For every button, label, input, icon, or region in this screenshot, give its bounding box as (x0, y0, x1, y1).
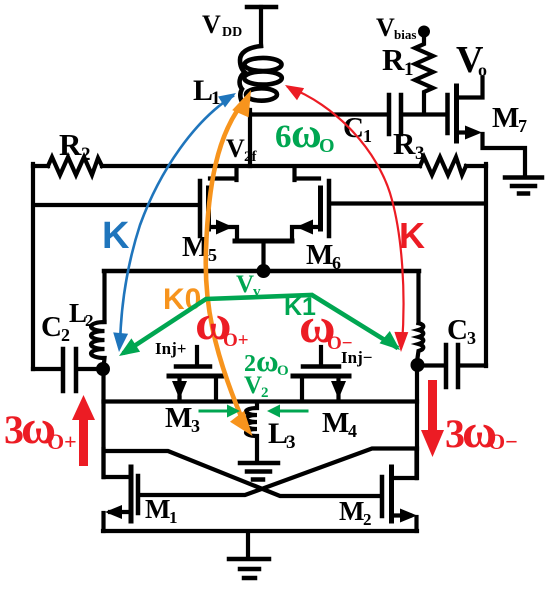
wire right tank vertical down (415, 367, 419, 478)
label M5 (182, 231, 217, 265)
coupling arrow K red (285, 85, 408, 352)
capacitor C2 (33, 349, 96, 391)
wire main rail right segment (466, 164, 486, 168)
output arrow 3wO- red (421, 380, 444, 457)
svg-text:M: M (339, 496, 364, 526)
node left tank (96, 362, 110, 376)
label L2 (69, 298, 94, 330)
wire common source bar M5 M6 (235, 239, 292, 244)
label M7 (492, 102, 527, 136)
label R1 (382, 42, 414, 80)
svg-text:2: 2 (61, 325, 70, 345)
svg-text:O+: O+ (47, 429, 77, 454)
ground L3 (240, 463, 278, 480)
svg-text:3: 3 (286, 432, 296, 453)
wire M6 gate to right rail (332, 201, 486, 205)
label 3wO+ red (4, 401, 77, 454)
wire ground tap (246, 533, 250, 558)
svg-text:C: C (447, 314, 468, 346)
wire drain node to C1 (251, 112, 387, 116)
svg-text:DD: DD (222, 25, 242, 40)
wire cross couple left drain to M2 gate (104, 451, 380, 496)
svg-text:2: 2 (85, 311, 94, 330)
svg-text:M: M (165, 402, 192, 434)
svg-text:R: R (393, 126, 416, 161)
wire VDD bar to L1 top (259, 7, 263, 46)
wire injection row (104, 399, 418, 403)
label Vbias (376, 13, 416, 42)
inductor L1 (240, 46, 282, 113)
resistor R1 (415, 31, 433, 114)
label wO- red (299, 297, 353, 354)
label L1 (193, 74, 221, 109)
svg-text:2: 2 (363, 510, 372, 529)
label M3 (165, 402, 200, 436)
svg-text:v: v (253, 284, 261, 300)
label R2 (59, 127, 91, 165)
wire L1 bottom to V2f rail (248, 110, 252, 166)
transistor M6 (292, 167, 329, 240)
label 2wO green (244, 343, 289, 379)
coupling arrow K blue (113, 93, 236, 352)
wire right tank vertical top (416, 273, 420, 323)
VDD supply bar (247, 5, 276, 10)
label 6wO green (275, 111, 335, 157)
svg-text:3: 3 (415, 143, 425, 164)
coupling arrow K0 orange (206, 90, 253, 436)
svg-text:5: 5 (208, 245, 217, 265)
label Vv green (236, 271, 261, 300)
svg-text:K: K (399, 215, 425, 256)
svg-text:3: 3 (191, 416, 200, 436)
wire tank top rail (104, 269, 419, 274)
label V2 green (244, 372, 269, 401)
svg-text:7: 7 (518, 116, 527, 136)
wire cross couple right drain to M1 gate (140, 449, 417, 496)
svg-text:1: 1 (169, 508, 178, 527)
svg-text:O: O (319, 135, 335, 157)
wire tail down (261, 242, 265, 266)
label M4 (322, 407, 357, 441)
node tail Vv (257, 264, 271, 278)
svg-text:K: K (102, 215, 130, 257)
ground M7 (505, 178, 542, 194)
wire M5 gate to left rail (34, 203, 198, 207)
label R3 (393, 126, 425, 164)
svg-text:V: V (244, 372, 262, 399)
transistor M5 (200, 167, 237, 240)
svg-text:V: V (226, 134, 245, 163)
wire main rail left segment (33, 164, 48, 168)
svg-text:M: M (145, 494, 170, 524)
transistor M7 (448, 78, 526, 176)
injection arrows at L3 green (200, 405, 307, 418)
label wO+ red (195, 294, 249, 351)
resistor R3 (420, 157, 466, 175)
svg-text:o: o (478, 60, 487, 80)
svg-text:Inj+: Inj+ (155, 339, 186, 358)
label M6 (306, 239, 341, 273)
wire left rail down to C2 (31, 164, 35, 369)
wire C1 to M7 gate (403, 112, 446, 116)
svg-text:M: M (306, 239, 333, 271)
ground main (229, 559, 269, 578)
resistor R2 (48, 157, 102, 175)
output arrow 3wO+ red (72, 395, 95, 466)
label VDD (202, 10, 242, 40)
svg-text:ω: ω (291, 111, 322, 157)
label M1 (145, 494, 178, 527)
label Vo (456, 39, 487, 81)
transistor M2 (382, 450, 417, 531)
label M2 (339, 496, 372, 529)
wire left tank vertical down (101, 371, 105, 477)
svg-text:C: C (41, 311, 62, 343)
label Inj+ (155, 339, 186, 358)
transistor M3 injection (169, 347, 225, 400)
capacitor C3 (422, 345, 486, 387)
wire right rail down to C3 (484, 164, 488, 366)
label V2f (226, 134, 258, 165)
svg-text:M: M (322, 407, 349, 439)
svg-text:R: R (59, 127, 82, 162)
svg-text:2: 2 (261, 385, 269, 401)
node Vbias (418, 26, 430, 38)
svg-text:V: V (202, 10, 221, 39)
svg-text:O+: O+ (223, 330, 249, 351)
label C3 (447, 314, 476, 348)
svg-text:V: V (376, 13, 395, 42)
label Inj- (341, 348, 372, 367)
svg-text:2f: 2f (244, 149, 258, 165)
svg-text:bias: bias (394, 27, 416, 42)
label C1 (343, 112, 372, 146)
svg-text:V: V (236, 271, 254, 298)
svg-text:4: 4 (348, 421, 357, 441)
svg-text:6: 6 (275, 119, 292, 155)
transistor M4 injection (293, 347, 349, 400)
svg-text:2: 2 (81, 144, 91, 165)
node right tank (411, 358, 425, 372)
svg-text:O−: O− (488, 429, 518, 454)
inductor L3 (246, 403, 257, 461)
transistor M1 (104, 449, 139, 531)
inductor right tank coil (418, 323, 424, 358)
label C2 (41, 311, 70, 345)
inductor L2 (91, 322, 105, 363)
label L3 (268, 417, 296, 453)
svg-text:O: O (277, 363, 289, 379)
svg-text:3: 3 (467, 328, 476, 348)
svg-text:L: L (193, 74, 213, 107)
svg-text:1: 1 (363, 126, 372, 146)
svg-text:1: 1 (404, 59, 414, 80)
svg-text:M: M (492, 102, 519, 134)
label 3wO- red (445, 405, 518, 458)
capacitor C1 (389, 95, 401, 134)
svg-text:L: L (268, 417, 288, 450)
tuning arrows K1 green (119, 295, 400, 356)
wire left tank vertical top (102, 273, 106, 322)
wire main rail center segment (102, 164, 420, 168)
wire bottom rail (103, 529, 417, 533)
svg-text:O−: O− (327, 333, 353, 354)
svg-text:R: R (382, 42, 405, 77)
